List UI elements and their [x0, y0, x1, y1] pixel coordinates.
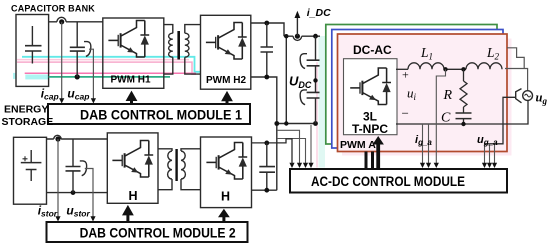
PWM H1 box	[103, 18, 164, 88]
green module box	[326, 25, 497, 145]
wire u_cap sense down	[89, 49, 93, 99]
thick arrow into H box1	[122, 205, 134, 222]
wire H2b top rail to DC-	[252, 139, 293, 164]
cyan band in cap-bank box	[25, 75, 49, 80]
svg-text:PWM H2: PWM H2	[206, 75, 246, 86]
svg-text:AC-DC CONTROL MODULE: AC-DC CONTROL MODULE	[311, 174, 465, 189]
transformer T1	[164, 25, 201, 75]
PWM H2 box	[201, 15, 251, 89]
IGBT U-NPC	[350, 68, 391, 105]
capacitor C_bank	[25, 26, 42, 64]
i_DC sense arrow	[296, 18, 298, 37]
DC- rail	[277, 123, 316, 125]
sense capacitor u_stor branch	[66, 139, 81, 193]
PWM A thick lines	[366, 152, 373, 170]
wire L1 to L2	[444, 68, 466, 70]
H bridge box 1	[107, 133, 158, 203]
transformer T2	[158, 149, 201, 190]
svg-text:ENERGY: ENERGY	[4, 103, 48, 115]
svg-text:DAB CONTROL MODULE 1: DAB CONTROL MODULE 1	[80, 107, 242, 122]
wire i_stor sense down	[57, 139, 59, 218]
DC+ rail with current hop	[284, 35, 320, 37]
svg-text:CAPACITOR BANK: CAPACITOR BANK	[11, 4, 95, 14]
signal line pink	[17, 62, 196, 74]
cyan patch left edge	[13, 73, 17, 79]
grid bracket	[516, 89, 522, 103]
u_g_a sense lines	[485, 144, 495, 164]
sense capacitor u_cap branch	[70, 22, 85, 77]
neutral branch to grid bracket	[485, 97, 516, 144]
sensor curve U_DC bottom	[300, 90, 307, 105]
IGBT U-Hb2	[206, 143, 247, 180]
thick arrow into PWM H2	[221, 91, 233, 104]
capacitor C	[463, 107, 465, 124]
svg-text:C: C	[441, 111, 451, 126]
IGBT U-H2	[206, 23, 247, 60]
left DC rail	[285, 36, 287, 123]
thick arrow into PWM H1	[126, 91, 138, 104]
AC-DC control module bar	[290, 169, 507, 193]
phase bottom rail	[396, 101, 528, 124]
DAB control module 2 bar	[47, 222, 248, 242]
svg-text:T-NPC: T-NPC	[352, 122, 388, 136]
blue module box	[332, 30, 503, 149]
svg-text:−: −	[402, 106, 409, 121]
T-NPC converter box	[344, 59, 398, 135]
wire ES top rail with hop	[47, 138, 107, 140]
IGBT U-Hb1	[112, 141, 153, 178]
sensor curve U_DC top (left-bulging)	[300, 54, 307, 69]
wire PWM H2 bottom rail	[251, 77, 277, 190]
inductor L2	[466, 63, 502, 70]
svg-text:PWM A: PWM A	[340, 139, 376, 151]
pink offset fill	[342, 39, 512, 156]
wire bottom rail cap-bank to PWM H1 (teal)	[49, 76, 170, 78]
H bridge box 2	[201, 137, 252, 208]
svg-text:DC-AC: DC-AC	[353, 43, 392, 57]
IGBT U-H1	[108, 21, 149, 58]
svg-text:H: H	[221, 190, 230, 204]
DAB control module 1 bar	[48, 104, 250, 124]
red module box	[338, 34, 508, 152]
signal line cyan	[22, 57, 201, 72]
wire PWM H2 top to DC link	[251, 23, 284, 36]
signal line magenta	[25, 72, 196, 74]
output cap lower DAB	[259, 143, 275, 190]
node dot top rail	[59, 19, 64, 24]
svg-text:H: H	[128, 189, 137, 203]
inductor L1	[408, 63, 444, 70]
thick arrow into H box2	[218, 209, 230, 222]
cyan vertical band	[319, 36, 326, 168]
svg-text:PWM H1: PWM H1	[111, 74, 151, 85]
battery symbol	[21, 150, 42, 181]
PWM A big arrow	[373, 136, 384, 169]
resistor R branch	[463, 69, 465, 81]
i_g_a sense lines	[423, 69, 446, 164]
svg-text:i_DC: i_DC	[307, 7, 331, 19]
wire u_stor sense down	[85, 169, 93, 218]
wire top rail cap-bank to PWM H1 with hop	[49, 21, 103, 23]
svg-text:DAB CONTROL MODULE 2: DAB CONTROL MODULE 2	[80, 225, 236, 240]
node	[264, 75, 269, 80]
node dot bottom rail	[75, 74, 80, 79]
sensor curve u_cap	[84, 42, 91, 57]
grid connection steps	[505, 48, 528, 91]
svg-text:R: R	[443, 88, 453, 103]
svg-text:STORAGE: STORAGE	[2, 116, 54, 128]
signal line light pink upper	[17, 59, 189, 61]
capacitor bank box	[16, 15, 49, 87]
wire i_cap sense down	[61, 22, 63, 100]
energy storage box	[14, 137, 47, 204]
right DC rail with split caps	[307, 36, 320, 123]
wire ES bottom rail	[47, 192, 108, 194]
node	[264, 21, 269, 26]
pale pink vertical line near band	[316, 62, 318, 167]
wire H2b bottom rail	[252, 189, 277, 191]
dc-link cap upper DAB	[261, 23, 274, 77]
phase output wire + L1	[396, 68, 408, 70]
grid source u_g	[523, 91, 533, 101]
sense wires to AC-DC module	[277, 125, 311, 164]
